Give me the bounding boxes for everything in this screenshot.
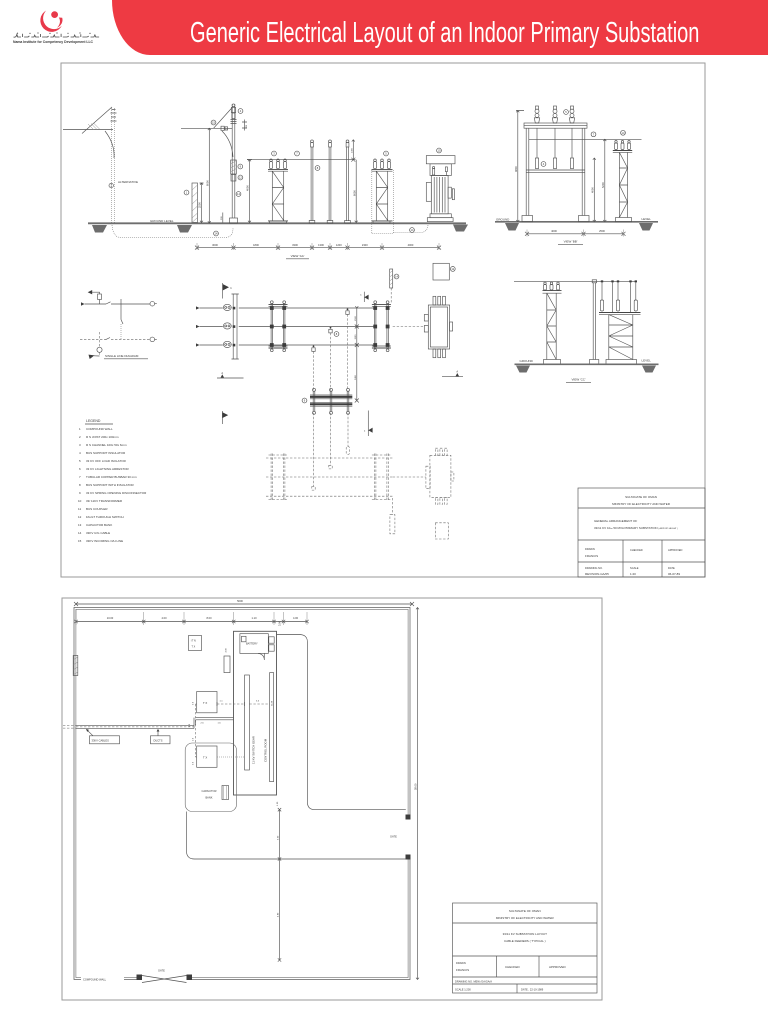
label 14 plan <box>394 274 399 279</box>
svg-text:GENERAL ARRANGEMENT OF: GENERAL ARRANGEMENT OF <box>594 519 637 523</box>
svg-text:3300: 3300 <box>292 243 298 247</box>
dim 2500 wall <box>198 183 204 223</box>
svg-text:DRAWN: DRAWN <box>456 961 466 965</box>
bus coupler circle bottom <box>150 337 157 342</box>
UG cable route 2 <box>394 224 429 233</box>
dashed cable to lower rect <box>392 498 394 515</box>
svg-text:1300: 1300 <box>318 243 324 247</box>
gate posts right <box>406 815 411 820</box>
dashed link to transformer <box>393 326 425 328</box>
svg-text:BUS COUPLER: BUS COUPLER <box>86 507 108 511</box>
svg-text:11: 11 <box>78 507 81 511</box>
gantry frame <box>522 123 589 222</box>
UG cable route from alternative pole <box>112 225 233 238</box>
bottom dim BB <box>525 229 626 236</box>
disconnector on pole <box>231 160 237 174</box>
svg-text:1.10: 1.10 <box>251 616 257 620</box>
battery cell small <box>242 636 247 642</box>
ground hatch BB right <box>639 223 653 231</box>
lightning arrestor on pole top <box>231 104 237 124</box>
ITN TX kiosk <box>189 636 202 651</box>
tower T2 plan <box>372 301 391 352</box>
svg-text:COMPOUND WALL: COMPOUND WALL <box>83 978 107 982</box>
alternative pole P0 <box>63 107 117 224</box>
duct run horizontal <box>76 725 194 728</box>
svg-text:R S JOIST 200x 100mm: R S JOIST 200x 100mm <box>86 435 119 439</box>
svg-text:A: A <box>456 369 458 373</box>
dim 5000 overall <box>74 599 414 606</box>
dim row segments <box>74 609 308 626</box>
insulator stack I3 <box>569 106 574 123</box>
wall channel plan <box>232 294 239 359</box>
dim 3400 to disconnector <box>355 345 359 403</box>
compound wall section W1 <box>192 183 198 223</box>
label 5 BB <box>564 110 569 115</box>
ground line BB <box>495 221 658 223</box>
sheet 1 border <box>61 63 705 577</box>
svg-text:COMPOUND WALL: COMPOUND WALL <box>86 427 113 431</box>
svg-text:33 KV OFF LOAD ISOLATOR: 33 KV OFF LOAD ISOLATOR <box>86 459 127 463</box>
svg-text:ALTERNATIVE: ALTERNATIVE <box>118 180 138 184</box>
road right of building <box>277 635 406 810</box>
svg-text:10: 10 <box>78 499 82 503</box>
section marker A right <box>442 369 463 376</box>
ground hatch BB left <box>505 223 519 231</box>
dim 300 pole base <box>221 213 223 223</box>
gate opening bottom whiteout <box>141 973 188 982</box>
svg-text:DRAWING NO.: DRAWING NO. <box>585 566 603 570</box>
svg-text:1200: 1200 <box>336 243 342 247</box>
dashed cable marker rect <box>390 515 395 534</box>
bottom dimension line AA <box>195 243 441 250</box>
incoming feeder 1 <box>196 304 235 310</box>
middle post CC <box>590 280 599 365</box>
dashed bus row 2 <box>266 476 393 478</box>
svg-text:CAPACITOR: CAPACITOR <box>202 789 217 793</box>
tower T1 plan <box>269 301 288 352</box>
lattice tower CC left <box>543 282 562 364</box>
transformer TX2 <box>197 746 217 767</box>
label 12 plan <box>450 267 455 272</box>
svg-text:06-07-89: 06-07-89 <box>668 572 680 576</box>
dashed clamp row2 bus2 <box>329 465 332 469</box>
svg-text:4000: 4000 <box>246 185 250 191</box>
svg-text:1800: 1800 <box>253 243 259 247</box>
svg-text:SULTANATE OF OMAN: SULTANATE OF OMAN <box>509 909 541 913</box>
svg-text:4000: 4000 <box>590 187 594 193</box>
bus support post S1 <box>309 140 315 223</box>
svg-text:SCALE 1:200: SCALE 1:200 <box>455 988 471 992</box>
svg-text:MINISTRY OF ELECTRICITY AND: MINISTRY OF ELECTRICITY AND WATER <box>612 502 671 506</box>
logo crescent <box>40 11 61 32</box>
svg-text:1300: 1300 <box>351 147 353 153</box>
svg-text:DATE , 22-10-1989: DATE , 22-10-1989 <box>521 988 544 992</box>
dim 58.00 right <box>413 608 419 980</box>
label 8 <box>315 166 320 171</box>
svg-text:GROUND: GROUND <box>496 218 510 222</box>
svg-text:4000: 4000 <box>551 229 557 233</box>
svg-text:BATTERY: BATTERY <box>246 642 258 646</box>
switch box on pole <box>231 175 236 182</box>
gate posts bottom <box>137 975 143 981</box>
svg-text:10.00: 10.00 <box>107 616 114 620</box>
clamp below bus2 <box>329 327 332 333</box>
dim 300 pole top <box>242 120 248 131</box>
view BB title <box>558 240 583 245</box>
dim 4000 pole <box>246 160 252 223</box>
dashed drop 2 <box>330 333 332 391</box>
svg-text:6000: 6000 <box>352 190 356 196</box>
section marker A left <box>217 371 244 378</box>
svg-text:BUS SUPPORT INSULATOR: BUS SUPPORT INSULATOR <box>86 451 126 455</box>
svg-text:CHECKED: CHECKED <box>630 548 643 552</box>
dashed drops lower <box>314 413 349 487</box>
svg-text:2300: 2300 <box>362 243 368 247</box>
svg-text:GROUND: GROUND <box>520 359 534 363</box>
label 9 <box>238 164 243 169</box>
label 14 on pole <box>236 192 241 197</box>
label 10 <box>437 148 442 153</box>
right assembly CC <box>599 280 641 364</box>
road dim vertical <box>277 808 281 962</box>
label 12 <box>238 175 243 180</box>
svg-text:5000: 5000 <box>237 599 243 603</box>
bus wire CC <box>514 281 637 283</box>
svg-text:33/ 11KV TRANSFORMER: 33/ 11KV TRANSFORMER <box>86 499 123 503</box>
svg-text:BUS SUPPORT WITH INSULATOR: BUS SUPPORT WITH INSULATOR <box>86 483 134 487</box>
dashed cable drop plan <box>390 288 392 304</box>
bus line plan 2 <box>239 326 374 328</box>
svg-text:SCALE: SCALE <box>630 566 639 570</box>
dim 4800 <box>514 111 524 222</box>
battery room box <box>240 634 268 654</box>
stay diagonal to pole top <box>214 108 233 129</box>
svg-text:VIEW 'CC': VIEW 'CC' <box>572 378 586 382</box>
svg-text:13: 13 <box>78 523 82 527</box>
ducts label <box>151 729 171 744</box>
svg-text:30.48: 30.48 <box>271 700 273 706</box>
dashed clamp row2 bus3 <box>312 487 315 491</box>
section flag B top <box>223 283 233 299</box>
single line diagram title <box>104 354 148 359</box>
dim 4000 BB <box>590 158 595 222</box>
33kv cables label <box>86 729 120 744</box>
cable tray strip <box>270 673 274 782</box>
logo arabic text <box>14 32 100 37</box>
bus wire BB <box>529 138 642 140</box>
svg-text:CHECKED: CHECKED <box>505 965 521 969</box>
gate opening right whiteout <box>404 820 411 855</box>
node 14 circle (route 2) <box>410 228 415 233</box>
dim 6000 posts <box>352 160 357 223</box>
dim 6000 line height <box>205 128 210 223</box>
svg-text:8.00: 8.00 <box>206 616 212 620</box>
svg-text:33 KV LIGHTNING ARRESTOR: 33 KV LIGHTNING ARRESTOR <box>86 467 129 471</box>
dashed clamp row2 bus1 <box>346 447 349 455</box>
svg-text:33KV INCOMING O/H LINE: 33KV INCOMING O/H LINE <box>86 539 123 543</box>
tension insulator on wire <box>221 126 228 130</box>
svg-text:DRAWN: DRAWN <box>585 547 595 551</box>
section marker C bottom <box>364 411 373 437</box>
dropper D2 <box>553 128 556 168</box>
insulator stack I2 <box>552 106 557 123</box>
label 3 <box>272 151 277 156</box>
svg-text:4.00: 4.00 <box>293 616 299 620</box>
incoming feeder 2 <box>196 323 235 329</box>
dashed square lower right <box>435 523 448 539</box>
clamp below bus1 <box>346 308 349 314</box>
label 8 plan <box>334 332 339 337</box>
logo dot <box>51 11 58 18</box>
svg-text:2500: 2500 <box>599 229 605 233</box>
bus support post S3 <box>345 140 351 223</box>
capacitor unit <box>222 786 229 800</box>
svg-text:6000: 6000 <box>205 180 209 186</box>
dotted enclosure around T2 <box>372 170 394 234</box>
dropper D1 <box>535 128 538 168</box>
svg-text:4.00: 4.00 <box>161 616 167 620</box>
dashed tower T1 lower <box>269 454 288 502</box>
red banner <box>112 0 768 55</box>
svg-text:TUBULAR COPPER BUSBAR 30 mm: TUBULAR COPPER BUSBAR 30 mm <box>86 475 137 479</box>
sheet 2 border <box>62 598 602 1000</box>
svg-text:33 KV SPRING OPENING DISCONNE: 33 KV SPRING OPENING DISCONNECTOR <box>86 491 147 495</box>
svg-text:14: 14 <box>78 531 82 535</box>
control building outline <box>234 631 277 795</box>
dashed drop 3 <box>313 351 315 390</box>
label 9 plan <box>302 398 307 403</box>
transformer TR1 <box>426 156 455 222</box>
aux transformer bay <box>224 656 230 673</box>
dim 1500 bus spacing <box>355 306 359 347</box>
svg-text:DRAWING NO. MEW /GA/GA/A: DRAWING NO. MEW /GA/GA/A <box>455 980 492 984</box>
dashed bus row 1 <box>266 457 393 459</box>
dashed link lower transformer <box>393 476 426 478</box>
logo Nama Institute <box>0 0 112 56</box>
clamp below bus3 <box>312 345 315 351</box>
capacitor bank label <box>202 789 217 800</box>
ground hatch 1 <box>92 225 107 233</box>
bus support post S2 <box>327 140 333 223</box>
capacitor tower BB <box>613 141 632 222</box>
svg-text:11 KV SWITCH GEAR: 11 KV SWITCH GEAR <box>252 736 256 764</box>
insulator stack I1 <box>534 106 539 123</box>
svg-text:DATE: DATE <box>668 566 675 570</box>
tubular busbar <box>247 159 356 161</box>
label 4 BB <box>541 162 546 167</box>
svg-text:CABLE FEEDERS ( TYPICAL ): CABLE FEEDERS ( TYPICAL ) <box>504 939 546 943</box>
disconnector H structure <box>310 388 352 414</box>
cables dashed in duct <box>76 726 194 728</box>
gate leaves X <box>142 976 187 983</box>
outgoing dashed branch <box>89 332 103 359</box>
switch cabinet plan <box>433 263 449 280</box>
dashed transformer lower <box>426 448 454 504</box>
svg-text:FRANCIS: FRANCIS <box>456 968 469 972</box>
dropper D3 <box>570 128 573 168</box>
logo wing <box>57 18 63 28</box>
bus line plan 3 <box>239 344 374 346</box>
pole P2 <box>230 104 238 223</box>
svg-text:APPROVED: APPROVED <box>668 548 683 552</box>
incoming cable plan <box>390 269 393 288</box>
dim 5200 BB <box>601 139 606 222</box>
svg-text:GROUND LEVEL: GROUND LEVEL <box>150 219 174 223</box>
tie line vertical <box>121 299 123 340</box>
ground hatch 3 <box>453 225 468 232</box>
section flag B bottom <box>222 411 228 424</box>
cables dashed outside <box>63 726 76 729</box>
svg-text:1500: 1500 <box>355 334 357 340</box>
svg-text:DUCTS: DUCTS <box>154 738 163 742</box>
duct to building <box>194 718 234 729</box>
lattice tower T1 <box>268 159 288 223</box>
svg-text:GATE: GATE <box>158 969 165 973</box>
battery door arc <box>258 653 264 660</box>
lattice tower T2 <box>372 159 393 223</box>
label 13 BB <box>621 130 626 135</box>
svg-text:MINISTRY OF ELECTRICITY AND WA: MINISTRY OF ELECTRICITY AND WATER <box>496 916 555 920</box>
incoming bus solid <box>81 302 150 306</box>
svg-text:15: 15 <box>78 539 82 543</box>
svg-text:5200: 5200 <box>601 182 605 188</box>
label 5 <box>384 151 389 156</box>
label 4 <box>238 109 243 114</box>
view CC title <box>566 378 591 383</box>
svg-text:VIEW 'AA': VIEW 'AA' <box>291 254 305 258</box>
svg-text:APPROVED: APPROVED <box>549 965 567 969</box>
ground line <box>88 222 466 224</box>
arrestor branch arrow <box>88 290 93 294</box>
dashed bus row 3 <box>266 495 393 497</box>
label 15 <box>211 120 216 125</box>
cable riser dashed <box>196 704 197 757</box>
svg-text:58.00: 58.00 <box>413 783 417 790</box>
svg-text:1500: 1500 <box>355 315 357 321</box>
ground hatch CC left <box>516 366 530 373</box>
svg-text:33/11 KV SUBSTATION LAYOUT: 33/11 KV SUBSTATION LAYOUT <box>503 932 547 936</box>
label 7 <box>295 151 300 156</box>
svg-text:VIEW 'BB': VIEW 'BB' <box>564 240 578 244</box>
svg-text:T X: T X <box>203 755 207 759</box>
lower bus dashed <box>80 338 150 340</box>
svg-text:LEGEND: LEGEND <box>86 419 101 423</box>
svg-text:CONTROL ROOM: CONTROL ROOM <box>264 738 268 762</box>
bus line plan 1 <box>239 307 374 309</box>
svg-text:33KV U/G CABLE: 33KV U/G CABLE <box>86 531 110 535</box>
road lower <box>187 812 406 860</box>
switchgear panel strip <box>245 675 250 770</box>
svg-text:2500: 2500 <box>198 202 202 208</box>
svg-text:CAPACITOR BANK: CAPACITOR BANK <box>86 523 112 527</box>
jumper wire to pole <box>222 131 233 157</box>
svg-text:LEVEL: LEVEL <box>642 217 652 221</box>
svg-text:4800: 4800 <box>514 166 518 172</box>
svg-text:33KV CABLES: 33KV CABLES <box>92 738 110 742</box>
svg-text:4000: 4000 <box>408 243 414 247</box>
label 2 on alternative pole <box>109 183 113 187</box>
bus coupler circle top <box>150 301 157 306</box>
svg-text:FRANCIS: FRANCIS <box>585 554 598 558</box>
node 14 circle (route 1) <box>214 231 219 236</box>
arrestor branch <box>92 292 100 294</box>
svg-text:3400: 3400 <box>355 374 357 380</box>
svg-text:BANK: BANK <box>205 796 212 800</box>
svg-text:3000: 3000 <box>212 243 218 247</box>
title block frame <box>453 903 598 993</box>
dim 1300 posts <box>351 140 355 162</box>
dim ticks TX row <box>217 702 245 706</box>
svg-text:REVISION-GA/05: REVISION-GA/05 <box>585 572 609 576</box>
TX1 to switchgear dashed <box>217 703 270 705</box>
label 1 <box>184 190 189 195</box>
svg-text:GATE: GATE <box>390 835 397 839</box>
svg-text:LEVEL: LEVEL <box>642 358 652 362</box>
incoming feeder 3 <box>196 341 235 347</box>
svg-text:SULTANATE OF OMAN: SULTANATE OF OMAN <box>625 495 657 499</box>
transformer TX1 <box>197 692 217 713</box>
view AA title <box>286 254 309 259</box>
ground hatch 2 <box>177 225 192 233</box>
wall cable entry hatch <box>73 656 78 676</box>
battery shelf units <box>269 637 274 651</box>
transformer plan solid <box>424 296 452 357</box>
svg-text:1:20: 1:20 <box>630 572 636 576</box>
svg-text:SINGLE LINE DIAGRAM: SINGLE LINE DIAGRAM <box>105 354 139 358</box>
svg-text:A: A <box>221 371 223 375</box>
ground hatch CC right <box>642 366 656 373</box>
svg-text:12: 12 <box>78 515 82 519</box>
svg-text:T X: T X <box>203 701 207 705</box>
section marker C top <box>360 292 368 302</box>
svg-text:T X: T X <box>192 646 196 649</box>
compound wall outer <box>74 608 410 980</box>
ground line CC <box>515 363 659 365</box>
svg-text:3.00: 3.00 <box>278 620 282 626</box>
incoming OH line <box>181 127 232 129</box>
svg-text:R S CHANNEL 100x 50x 6mm: R S CHANNEL 100x 50x 6mm <box>86 443 127 447</box>
capacitor enclosure <box>185 743 236 812</box>
svg-text:I T N: I T N <box>191 640 196 643</box>
title block frame <box>578 488 705 577</box>
TX2 to switchgear dotted <box>217 756 245 758</box>
compound wall inner <box>76 609 408 977</box>
label 7 BB <box>591 132 596 137</box>
lightning arrestor symbol <box>98 294 102 304</box>
dashed drop 1 <box>347 314 349 390</box>
dashed tower T2 lower <box>372 454 391 502</box>
svg-text:FAULT THROUGH SWITCH: FAULT THROUGH SWITCH <box>86 515 124 519</box>
compound wall label <box>81 975 124 983</box>
